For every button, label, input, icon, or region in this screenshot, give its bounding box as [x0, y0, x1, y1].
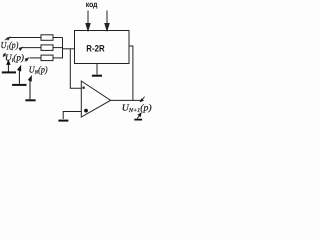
leader arrow to wire 1: [5, 37, 10, 40]
leader arrow before Ui: [3, 53, 5, 57]
ground arrow G2: [12, 66, 26, 85]
svg-text:UN(p): UN(p): [29, 65, 48, 77]
R-2R DAC block U1: [75, 31, 130, 64]
svg-text:U1(p): U1(p): [1, 40, 19, 52]
wire DAC bottom to ground: [96, 64, 98, 75]
mini ground under output label: [134, 113, 142, 119]
svg-text:код: код: [86, 0, 98, 9]
ground arrow G3: [25, 76, 35, 100]
leader arrow to wire 2: [19, 47, 22, 50]
wire op-amp + input to ground: [63, 112, 81, 120]
ground at op-amp + input: [58, 120, 68, 122]
op-amp U2: [81, 81, 110, 117]
resistor R2: [22, 45, 63, 51]
summing bus wire: [62, 38, 64, 59]
wire bus to DAC: [63, 48, 75, 50]
code input wire 1 with arrow into DAC: [86, 11, 90, 31]
non-inverting input marker: [84, 109, 88, 113]
ground under DAC: [92, 75, 102, 77]
svg-text:R-2R: R-2R: [86, 43, 105, 53]
output wire: [111, 99, 142, 101]
wire node to op-amp input: [70, 49, 81, 89]
code input wire 2 with arrow into DAC: [105, 11, 109, 31]
leader arrow to wire 3: [25, 58, 29, 61]
inverting input marker: [83, 87, 85, 89]
resistor R1: [9, 35, 63, 41]
wire DAC feedback to output: [129, 46, 133, 100]
resistor R3: [30, 55, 63, 61]
ground arrow G1: [2, 61, 16, 73]
leader arrow at output: [140, 97, 144, 102]
